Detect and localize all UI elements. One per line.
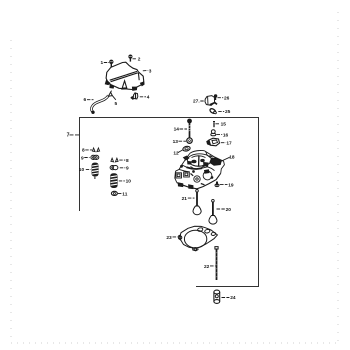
svg-text:2: 2 — [138, 57, 141, 63]
svg-text:1: 1 — [101, 60, 104, 66]
svg-text:10: 10 — [79, 167, 85, 173]
svg-text:26: 26 — [224, 95, 230, 101]
svg-text:21: 21 — [182, 196, 188, 202]
svg-text:27.: 27. — [193, 99, 200, 105]
svg-text:13: 13 — [173, 139, 179, 145]
svg-text:20: 20 — [226, 207, 232, 213]
svg-text:10: 10 — [126, 179, 132, 185]
svg-text:12: 12 — [173, 151, 179, 157]
svg-text:8: 8 — [126, 158, 129, 164]
svg-text:6: 6 — [84, 97, 87, 103]
svg-text:8: 8 — [82, 148, 85, 154]
svg-text:7: 7 — [67, 133, 70, 139]
svg-text:19: 19 — [228, 183, 234, 189]
svg-text:14: 14 — [174, 127, 180, 133]
svg-text:18: 18 — [229, 155, 235, 161]
svg-text:4: 4 — [147, 95, 150, 101]
svg-text:5: 5 — [115, 101, 118, 107]
svg-text:11: 11 — [122, 191, 127, 197]
svg-text:16: 16 — [223, 132, 229, 138]
svg-text:3: 3 — [149, 68, 152, 74]
svg-text:17: 17 — [226, 140, 232, 146]
svg-text:15: 15 — [221, 121, 227, 127]
svg-text:24: 24 — [230, 295, 236, 301]
svg-text:22: 22 — [204, 264, 210, 270]
svg-text:9: 9 — [81, 155, 84, 161]
svg-text:25: 25 — [225, 109, 231, 115]
svg-text:23: 23 — [166, 235, 172, 241]
svg-text:9: 9 — [126, 166, 129, 172]
